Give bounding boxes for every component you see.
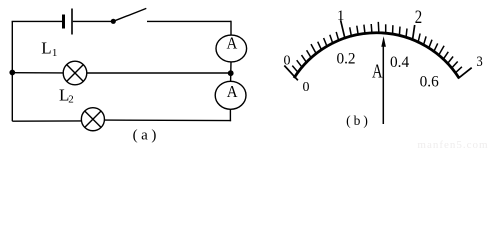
svg-text:L: L — [41, 39, 51, 58]
svg-text:0.2: 0.2 — [336, 51, 355, 68]
svg-text:0: 0 — [303, 80, 310, 95]
svg-text:(b): (b) — [346, 113, 371, 128]
svg-text:2: 2 — [415, 6, 422, 27]
svg-text:0.6: 0.6 — [420, 73, 439, 90]
svg-text:(a): (a) — [133, 128, 160, 144]
svg-text:1: 1 — [337, 8, 345, 24]
svg-text:1: 1 — [52, 47, 58, 59]
svg-text:A: A — [226, 35, 237, 53]
svg-text:3: 3 — [476, 54, 482, 70]
svg-text:0.4: 0.4 — [390, 54, 409, 71]
svg-text:A: A — [227, 83, 238, 101]
svg-text:manfen5.com: manfen5.com — [417, 139, 488, 151]
svg-text:A: A — [372, 61, 383, 82]
svg-text:2: 2 — [68, 94, 74, 106]
svg-text:0: 0 — [284, 54, 291, 69]
